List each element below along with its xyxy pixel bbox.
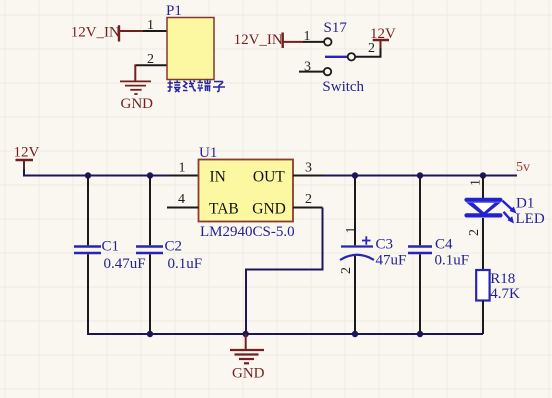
connector P1 box xyxy=(167,18,214,80)
svg-text:TAB: TAB xyxy=(209,201,239,218)
wire LED anode xyxy=(482,176,484,199)
svg-text:D1: D1 xyxy=(516,196,534,212)
svg-text:R18: R18 xyxy=(490,271,515,287)
svg-text:2: 2 xyxy=(467,229,482,236)
wire P1 pin1 xyxy=(143,30,167,32)
svg-text:12V_IN: 12V_IN xyxy=(234,32,283,48)
wire U1 pin1 xyxy=(169,175,199,177)
diode D1 LED symbol xyxy=(466,200,517,224)
regulator U1 box xyxy=(199,160,294,222)
capacitor C3 (polarized) xyxy=(340,177,374,333)
svg-text:LM2940CS-5.0: LM2940CS-5.0 xyxy=(200,224,295,240)
power port 12V_IN (left, to P1 pin 1) xyxy=(71,25,143,42)
node C1 top junction xyxy=(85,172,91,178)
ground symbol GND (P1) xyxy=(120,81,151,94)
wire 5v rail xyxy=(323,175,517,177)
node GND junction xyxy=(243,331,249,337)
svg-text:47uF: 47uF xyxy=(376,253,407,269)
ground symbol GND (bottom) xyxy=(230,350,264,363)
svg-text:IN: IN xyxy=(210,169,226,186)
wire U1 pin4 stub xyxy=(167,207,199,209)
svg-text:C4: C4 xyxy=(435,237,453,253)
svg-text:C1: C1 xyxy=(102,239,120,255)
wire 12V rail xyxy=(24,169,170,176)
svg-text:0.1uF: 0.1uF xyxy=(168,256,203,272)
wire LED cathode to R18 xyxy=(482,218,484,270)
svg-text:GND: GND xyxy=(121,96,154,112)
svg-text:S17: S17 xyxy=(324,20,348,36)
label 接线端子 (terminal block) xyxy=(168,80,226,93)
power port 12V (right of switch) xyxy=(370,26,396,48)
node LED top junction xyxy=(480,172,486,178)
svg-text:0.47uF: 0.47uF xyxy=(104,256,146,272)
node C3 top junction xyxy=(352,172,358,178)
svg-text:1: 1 xyxy=(147,18,154,33)
wire switch pin3 xyxy=(299,71,324,73)
power port 12V (main rail) xyxy=(14,145,40,171)
resistor R18 xyxy=(476,270,489,301)
wire U1 pin3 xyxy=(293,175,323,177)
capacitor C2 xyxy=(136,177,163,333)
switch lever xyxy=(325,56,347,58)
node C2 top junction xyxy=(147,172,153,178)
svg-text:2: 2 xyxy=(368,41,375,56)
power port 12V_IN (at switch S17) xyxy=(234,32,303,48)
wire switch pin1 xyxy=(303,41,324,43)
wire R18 to ground rail xyxy=(482,301,484,335)
node C3 bottom junction xyxy=(352,331,358,337)
svg-text:GND: GND xyxy=(252,201,286,218)
svg-text:C2: C2 xyxy=(165,239,183,255)
svg-text:U1: U1 xyxy=(199,145,217,161)
wire ground stub xyxy=(245,334,247,350)
svg-text:P1: P1 xyxy=(166,3,182,19)
switch contact pin1 circle xyxy=(324,38,331,45)
svg-text:0.1uF: 0.1uF xyxy=(435,253,470,269)
node C4 top junction xyxy=(417,172,423,178)
svg-text:1: 1 xyxy=(469,179,484,186)
svg-text:LED: LED xyxy=(516,211,545,227)
svg-text:1: 1 xyxy=(179,161,186,176)
svg-text:12V_IN: 12V_IN xyxy=(71,25,120,41)
capacitor C4 xyxy=(408,177,432,333)
wire switch pin2 to 12V xyxy=(355,47,380,57)
switch contact pin3 circle xyxy=(324,68,331,75)
svg-text:C3: C3 xyxy=(376,237,394,253)
node C2 bottom junction xyxy=(147,331,153,337)
wire ground rail (bottom) xyxy=(87,333,483,335)
svg-text:Switch: Switch xyxy=(322,79,364,95)
svg-text:1: 1 xyxy=(344,227,359,234)
switch contact pin2 circle xyxy=(348,53,355,60)
svg-text:5v: 5v xyxy=(516,160,530,175)
wire to ground (P1) xyxy=(134,64,136,80)
svg-text:GND: GND xyxy=(232,366,265,382)
svg-text:3: 3 xyxy=(305,161,312,176)
capacitor C1 xyxy=(74,177,101,333)
svg-text:3: 3 xyxy=(304,60,311,75)
wire P1 pin2 xyxy=(136,64,167,66)
svg-text:4: 4 xyxy=(178,192,185,207)
svg-text:4.7K: 4.7K xyxy=(490,286,520,302)
svg-text:OUT: OUT xyxy=(253,169,285,186)
svg-text:12V: 12V xyxy=(14,145,40,161)
wire U1 pin2 to ground rail xyxy=(293,207,323,209)
svg-text:1: 1 xyxy=(304,29,311,44)
svg-text:2: 2 xyxy=(305,192,312,207)
svg-text:2: 2 xyxy=(339,267,354,274)
node C4 bottom junction xyxy=(417,331,423,337)
